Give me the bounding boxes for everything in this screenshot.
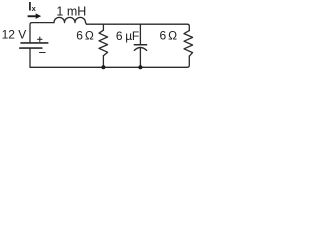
current arrow Ix	[28, 13, 42, 19]
wire capacitor to bottom	[139, 48, 141, 68]
svg-text:6 Ω: 6 Ω	[76, 29, 94, 43]
minus sign	[40, 52, 46, 54]
wire capacitor stub	[139, 24, 141, 43]
voltage source V1 bottom plate	[20, 47, 42, 49]
svg-text:12 V: 12 V	[2, 28, 27, 42]
wire right-bottom segment	[30, 56, 189, 67]
svg-text:1 mH: 1 mH	[56, 4, 86, 18]
svg-text:6 µF: 6 µF	[116, 29, 139, 43]
capacitor C1 curved plate	[134, 48, 146, 51]
capacitor C1 top plate	[134, 44, 146, 46]
wire resistor R1 stub	[102, 24, 104, 30]
svg-text:x: x	[32, 4, 37, 13]
voltage source V1 top plate	[21, 42, 48, 44]
junction dot node A	[101, 65, 105, 69]
svg-text:6 Ω: 6 Ω	[160, 28, 178, 42]
wire resistor R1 to bottom	[102, 56, 104, 68]
plus sign	[38, 37, 42, 41]
inductor L1	[54, 17, 87, 24]
resistor R2	[184, 31, 193, 57]
junction dot node B	[138, 65, 142, 69]
wire battery-to-bottom	[29, 48, 31, 67]
wire top-right segment	[87, 24, 190, 30]
wire top-left segment	[30, 23, 54, 43]
resistor R1	[99, 30, 108, 56]
